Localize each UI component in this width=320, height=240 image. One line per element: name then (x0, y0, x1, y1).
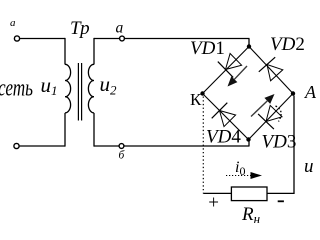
node bottom vertex dot (246, 137, 250, 141)
node a circle (120, 36, 125, 41)
wire stub to bridge top vertex (248, 39, 250, 47)
wire bridge edge B-A (VD3 edge) (249, 94, 294, 140)
svg-text:VD2: VD2 (270, 34, 305, 55)
wire secondary bottom stem (93, 113, 95, 147)
diode VD1 (218, 54, 242, 78)
wire load right horizontal (267, 192, 294, 194)
current arrow through VD1 (228, 66, 248, 87)
transformer secondary winding (88, 64, 94, 113)
svg-text:А: А (304, 82, 316, 102)
transformer primary winding (65, 64, 71, 113)
label - (278, 200, 284, 202)
svg-text:VD3: VD3 (262, 132, 297, 153)
wire primary top stem (64, 38, 66, 65)
svg-text:VD4: VD4 (206, 127, 241, 148)
node top vertex dot (247, 44, 251, 48)
svg-text:а: а (10, 17, 16, 29)
svg-text:Тр: Тр (70, 18, 90, 39)
transformer core (77, 63, 79, 121)
wire secondary top stem (93, 38, 95, 65)
current arrow through VD3 (251, 94, 275, 117)
wire A down to load (293, 96, 295, 195)
current i0 dotted line (226, 175, 251, 177)
wire bridge edge K-B (VD4 edge) (203, 94, 249, 140)
diode VD4 (212, 103, 236, 127)
current i0 arrowhead (251, 172, 263, 179)
svg-text:К: К (190, 90, 202, 109)
dotted arc near VD3 (276, 106, 282, 122)
wire top rail secondary to bridge (94, 38, 250, 40)
wire bottom-left rail (19, 145, 65, 147)
svg-text:u: u (304, 156, 314, 177)
terminal circle top-left (14, 36, 19, 41)
wire primary bottom stem (64, 113, 66, 147)
dashed wire from K down to load (202, 97, 204, 194)
wire bottom rail secondary to bridge (94, 145, 250, 147)
node б circle (119, 144, 124, 149)
wire load left horizontal (203, 192, 231, 194)
terminal circle bottom-left (14, 143, 19, 148)
svg-text:а: а (116, 20, 124, 37)
wire stub to bridge bottom vertex (248, 140, 250, 147)
svg-text:VD1: VD1 (190, 38, 225, 59)
diode VD3 (258, 105, 282, 129)
node K dot (200, 91, 204, 95)
node A dot (291, 91, 295, 95)
wire bridge edge T-K (VD1 edge) (203, 47, 250, 94)
diode VD2 (259, 57, 283, 81)
wire bridge edge T-A (VD2 edge) (249, 47, 293, 94)
svg-text:сеть: сеть (0, 76, 33, 102)
resistor Rн (231, 187, 267, 201)
svg-text:+: + (208, 193, 219, 214)
wire top-left rail (20, 38, 65, 40)
